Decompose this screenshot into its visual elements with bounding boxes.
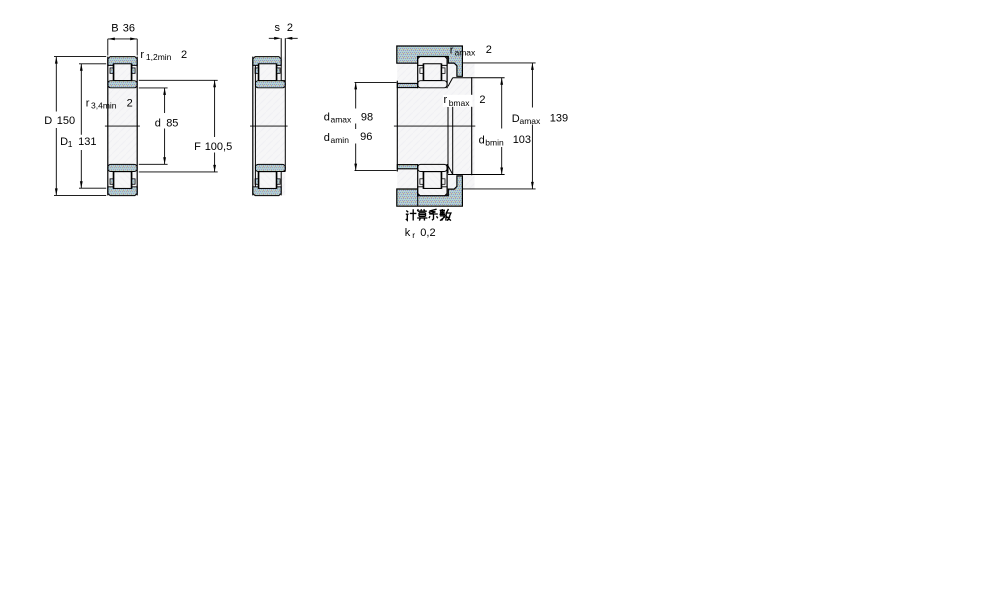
flange guide lines upper xyxy=(423,65,442,80)
svg-text:0,2: 0,2 xyxy=(420,227,435,239)
dimension F extension lines xyxy=(139,80,218,172)
label 计算系数 (drawn strokes) xyxy=(406,209,451,221)
svg-text:bmin: bmin xyxy=(485,138,504,148)
svg-text:d: d xyxy=(479,134,485,146)
svg-text:2: 2 xyxy=(287,22,293,34)
steel background shaft area fig3 xyxy=(397,63,474,190)
svg-text:F: F xyxy=(194,141,201,153)
outer ring upper xyxy=(418,57,447,66)
svg-text:2: 2 xyxy=(181,49,187,61)
shaft shoulder right face xyxy=(471,77,473,175)
dimension D_amax extension lines xyxy=(462,63,535,189)
svg-text:r: r xyxy=(450,44,454,56)
bearing lower half (fig1, mirrored) xyxy=(108,164,137,195)
flange guide lines upper xyxy=(113,65,132,80)
svg-text:3,4min: 3,4min xyxy=(91,101,117,111)
dimension B extension lines xyxy=(108,39,137,56)
bearing upper half (fig1) xyxy=(108,57,137,88)
outer ring right face fig2 + s extension xyxy=(280,38,282,195)
outer ring left face fig2 xyxy=(252,57,254,196)
svg-text:r: r xyxy=(86,97,90,109)
shaft step edge lines xyxy=(448,103,453,174)
bearing side faces fig3 xyxy=(418,57,447,196)
svg-text:B: B xyxy=(111,23,118,35)
white box under r_bmax label xyxy=(443,95,473,107)
svg-text:k: k xyxy=(405,227,411,239)
dimension line D_amax xyxy=(531,63,533,189)
dimension line d_bmin xyxy=(501,78,503,175)
cage bar left upper xyxy=(110,68,113,74)
roller upper xyxy=(259,64,276,81)
svg-text:2: 2 xyxy=(486,44,492,56)
inner ring right face fig2 + s extension xyxy=(284,38,286,171)
bearing lower half (fig2, mirrored) xyxy=(253,164,285,195)
shaft shoulder surface + d_b extension lower xyxy=(448,174,505,176)
shaft left face xyxy=(396,81,398,172)
svg-text:amax: amax xyxy=(520,116,542,126)
svg-text:2: 2 xyxy=(479,94,485,106)
svg-text:1,2min: 1,2min xyxy=(146,52,172,62)
char 计 xyxy=(406,209,417,220)
shaft shoulder band lower left (blue) xyxy=(397,165,417,169)
dimension line F xyxy=(214,80,216,172)
char 算 xyxy=(417,209,427,220)
dimension d_a extension lines xyxy=(355,82,397,170)
shaft shoulder band upper left (blue) xyxy=(397,83,417,87)
inner ring upper xyxy=(108,81,137,88)
svg-text:amax: amax xyxy=(455,48,477,58)
svg-text:131: 131 xyxy=(78,136,96,148)
svg-text:r: r xyxy=(444,94,448,106)
svg-text:1: 1 xyxy=(68,139,73,149)
svg-text:r: r xyxy=(412,230,415,240)
roller upper xyxy=(114,64,131,81)
dimension line d_a xyxy=(355,82,357,170)
svg-text:150: 150 xyxy=(57,115,75,127)
svg-text:139: 139 xyxy=(550,112,568,124)
dimension D extension lines xyxy=(54,57,106,196)
housing lower (blue) xyxy=(397,176,463,206)
svg-text:d: d xyxy=(324,112,330,124)
inner ring upper (shifted right by s) xyxy=(255,81,285,88)
steel background bearing fig3 xyxy=(418,57,448,196)
cage bar right upper xyxy=(442,68,445,74)
flange guide lines upper xyxy=(258,65,277,80)
svg-text:2: 2 xyxy=(127,98,133,110)
svg-text:85: 85 xyxy=(166,117,178,129)
cage bar left upper xyxy=(420,68,423,74)
axis centerline fig1 xyxy=(105,125,140,127)
inner ring left face fig2 xyxy=(254,65,256,186)
outer ring upper xyxy=(253,57,281,66)
dimension s arrows and tails xyxy=(269,37,298,39)
dimension line B xyxy=(108,38,137,40)
svg-text:100,5: 100,5 xyxy=(205,141,233,153)
svg-text:d: d xyxy=(324,132,330,144)
svg-text:r: r xyxy=(140,49,144,61)
cage bar left upper xyxy=(255,68,258,74)
svg-text:96: 96 xyxy=(360,131,372,143)
svg-text:d: d xyxy=(155,117,161,129)
svg-text:bmax: bmax xyxy=(449,98,471,108)
dimension line D xyxy=(55,57,57,196)
dimension d extension lines xyxy=(139,88,168,164)
shaft step chamfer lower xyxy=(448,166,453,175)
cage bar right upper xyxy=(132,68,135,74)
svg-text:amax: amax xyxy=(331,115,353,125)
bearing side faces fig1 xyxy=(108,57,137,196)
steel background of section xyxy=(108,57,137,196)
inner ring upper xyxy=(418,81,447,88)
inner ring top-right corner joins fig2 xyxy=(281,81,285,172)
char 系 xyxy=(429,209,438,220)
steel background of section fig2 xyxy=(253,57,285,196)
shaft step chamfer upper xyxy=(448,78,453,87)
char 数 xyxy=(440,209,451,221)
cage bar right upper xyxy=(277,68,280,74)
svg-text:36: 36 xyxy=(123,23,135,35)
bearing upper half (fig3, steel fill) xyxy=(418,57,447,88)
svg-text:amin: amin xyxy=(331,135,350,145)
roller upper xyxy=(424,64,441,81)
housing joint line lower xyxy=(417,196,419,207)
dimension line D1 xyxy=(80,64,82,188)
axis centerline fig3 xyxy=(394,125,475,127)
bearing upper half (fig2) xyxy=(253,57,285,88)
dimension line d xyxy=(164,88,166,164)
shaft shoulder surface + d_b extension upper xyxy=(453,77,505,79)
svg-text:s: s xyxy=(275,22,281,34)
svg-text:103: 103 xyxy=(513,134,531,146)
outer ring upper xyxy=(108,57,137,66)
svg-text:D: D xyxy=(44,115,52,127)
bearing lower half (fig3, mirrored) xyxy=(418,164,447,195)
axis centerline fig2 xyxy=(250,125,288,127)
dimension D1 extension lines xyxy=(79,64,106,188)
housing upper (blue) xyxy=(397,46,463,76)
svg-text:98: 98 xyxy=(361,111,373,123)
